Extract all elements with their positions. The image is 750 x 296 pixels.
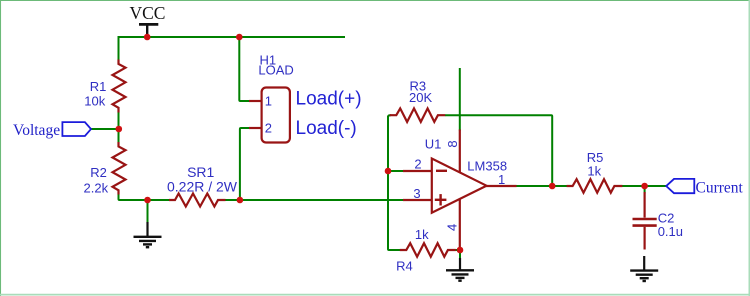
svg-text:1k: 1k [587,164,601,179]
wire: R5 right to Current port [622,185,667,187]
resistor R5 [567,179,623,193]
wire: R3 left corner [388,115,391,117]
svg-text:2: 2 [265,120,272,135]
port Voltage [62,122,91,136]
ground (C2) [630,256,658,281]
svg-text:LOAD: LOAD [258,63,293,78]
op-amp U1 pins [403,130,517,251]
svg-text:1: 1 [265,93,272,108]
svg-text:1: 1 [498,172,505,187]
wire: bottom rail SR1 right to pin3 [225,199,404,201]
svg-text:R4: R4 [396,259,413,274]
svg-text:VCC: VCC [130,3,166,23]
pin 1 output stub [486,185,517,187]
wire: H1 pin1 vertical from top rail [239,36,249,101]
svg-text:3: 3 [413,186,420,201]
wire: R4 right green under junction [455,249,460,251]
resistor R4 [400,243,456,257]
wire: output green segment [516,185,568,187]
svg-text:0.22R / 2W: 0.22R / 2W [167,179,238,195]
pin 4 stub [459,199,461,250]
wire: left vertical below R2 to bottom rail [119,193,171,200]
wire: ground stub below bottom-rail node [147,200,149,223]
svg-text:Load(+): Load(+) [296,89,362,110]
wire: ground stub below pin4 junction [459,250,461,259]
wire: left vertical between R1 and Voltage node [118,112,120,143]
pin 8 stub [459,130,461,173]
svg-text:SR1: SR1 [187,164,214,180]
junction node (H1 pin1 branch / top rail) [236,34,243,41]
wire: R3 right to feedback corner and down to output [445,115,552,186]
port Current [666,179,694,193]
junction node (output / feedback) [549,183,556,190]
wire: pin8 supply stub [459,68,461,131]
junction node (R5 / C2 / port) [641,183,648,190]
junction node (R4 / pin4 / ground) [457,247,464,254]
svg-text:4: 4 [445,224,460,231]
ground (bottom rail node) [134,222,162,247]
op-amp plus mark [435,194,447,205]
svg-text:U1: U1 [425,136,442,151]
wire: left vertical above R1 [118,36,120,60]
svg-text:R1: R1 [90,79,107,94]
svg-text:2: 2 [414,157,421,172]
op-amp U1 triangle [432,159,487,213]
svg-text:10k: 10k [84,94,105,109]
svg-text:Voltage: Voltage [13,122,60,139]
ground (op-amp pin4) [446,258,474,281]
resistor R3 [390,108,445,122]
wire: H1 pin2 down to bottom rail [240,128,249,200]
resistor R2 [113,142,126,195]
capacitor C2 [633,192,657,250]
svg-text:Load(-): Load(-) [296,118,357,139]
pin 2 stub [403,170,431,172]
wire: Voltage port to node [91,128,119,130]
resistor SR1 [169,194,226,207]
svg-text:20K: 20K [409,90,432,105]
op-amp minus mark [436,170,447,172]
junction node (bottom rail / ground) [144,197,151,204]
connector H1 [249,88,290,143]
junction node (Voltage tap) [116,126,123,133]
junction node (VCC stem / top rail) [144,34,151,41]
wire: VCC top rail [119,36,346,38]
wire: pin2 green [388,170,404,172]
svg-text:2.2k: 2.2k [84,181,109,196]
power VCC symbol [139,24,158,36]
svg-text:8: 8 [445,140,460,147]
svg-text:R2: R2 [90,165,107,180]
svg-text:1k: 1k [415,227,429,242]
pin 3 stub [403,199,431,201]
resistor R1 [113,60,126,113]
junction node (pin2 / feedback) [385,168,392,175]
svg-text:0.1u: 0.1u [658,224,683,239]
svg-text:Current: Current [696,179,744,196]
junction node (bottom rail / H1 pin2) [237,197,244,204]
wire: feedback left vertical (R3/pin2/R4 net) [388,116,401,250]
wire: C2 top green stub [644,186,646,194]
